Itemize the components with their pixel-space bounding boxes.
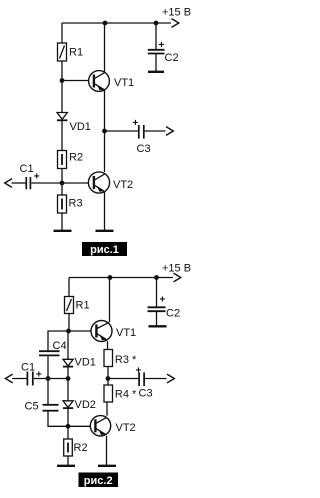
svg-text:+: + [159,40,165,51]
svg-text:C3: C3 [139,388,153,400]
svg-text:+: + [136,366,142,377]
svg-text:C1: C1 [20,163,34,175]
svg-text:+15 В: +15 В [162,263,191,275]
svg-text:C1: C1 [21,362,35,374]
svg-text:+: + [133,118,139,129]
svg-text:R1: R1 [76,300,90,312]
svg-text:VT2: VT2 [113,179,133,191]
svg-text:+: + [36,370,42,381]
svg-text:+: + [34,172,40,183]
svg-text:R4 *: R4 * [115,389,137,401]
svg-text:C4: C4 [53,340,67,352]
svg-text:VT2: VT2 [116,422,136,434]
svg-text:R3: R3 [69,198,83,210]
svg-text:рис.1: рис.1 [90,244,119,256]
svg-text:C3: C3 [137,143,151,155]
svg-text:VD1: VD1 [75,357,96,369]
svg-text:VD1: VD1 [70,121,91,133]
svg-text:C2: C2 [166,308,180,320]
svg-text:R3 *: R3 * [115,354,137,366]
svg-text:R2: R2 [69,152,83,164]
svg-text:рис.2: рис.2 [84,475,113,487]
svg-text:VT1: VT1 [114,77,134,89]
svg-text:VD2: VD2 [75,399,96,411]
svg-text:R1: R1 [69,47,83,59]
svg-text:C5: C5 [25,401,39,413]
svg-text:+15 В: +15 В [162,7,191,19]
svg-text:+: + [160,295,166,306]
svg-text:R2: R2 [74,442,88,454]
svg-text:C2: C2 [165,52,179,64]
svg-text:VT1: VT1 [116,327,136,339]
